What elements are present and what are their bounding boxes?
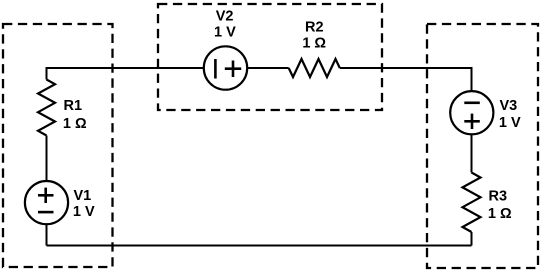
dashed box: right mesh boundary [427, 24, 538, 268]
wire: bottom-left corner up to V1 bottom (-) terminal [46, 224, 48, 245]
svg-text:1 V: 1 V [73, 204, 95, 220]
svg-text:1 Ω: 1 Ω [488, 206, 512, 222]
voltage source V1 (circle, + top / - bottom) [25, 181, 68, 224]
wire: V1 top (+) terminal up to R1 bottom lead [46, 136, 48, 182]
svg-text:1 V: 1 V [214, 25, 236, 41]
svg-text:V2: V2 [216, 9, 234, 25]
voltage source V2 (circle, - left / + right) [204, 46, 247, 89]
dashed box: left mesh boundary [3, 24, 113, 267]
voltage source V3 (circle, - top / + bottom) [450, 91, 493, 134]
resistor R2 zigzag [289, 59, 340, 77]
wire: top-left corner to V2 left terminal [47, 68, 204, 69]
svg-text:R3: R3 [489, 189, 508, 205]
svg-text:R1: R1 [64, 98, 83, 114]
resistor R1 zigzag [38, 80, 55, 136]
wire: top-right corner down to V3 top (-) terminal [471, 68, 473, 91]
wire: V3 bottom (+) terminal to R3 top lead [471, 134, 473, 172]
wire: V2 right terminal to R2 left lead [247, 67, 289, 69]
dashed box: top supermesh boundary [158, 4, 382, 110]
svg-text:V1: V1 [74, 188, 92, 204]
wire: bottom side, bottom-right corner to bottom-left corner [47, 245, 472, 247]
wire: R1 top lead to top-left corner [46, 68, 48, 80]
svg-text:1 V: 1 V [499, 115, 521, 131]
svg-text:R2: R2 [305, 19, 324, 35]
wire: R3 bottom lead to bottom-right corner [471, 232, 473, 246]
svg-text:V3: V3 [500, 98, 518, 114]
svg-text:1 Ω: 1 Ω [63, 116, 87, 132]
resistor R3 zigzag [463, 173, 481, 233]
wire: R2 right lead to top-right corner [340, 68, 472, 69]
svg-text:1 Ω: 1 Ω [302, 36, 326, 52]
